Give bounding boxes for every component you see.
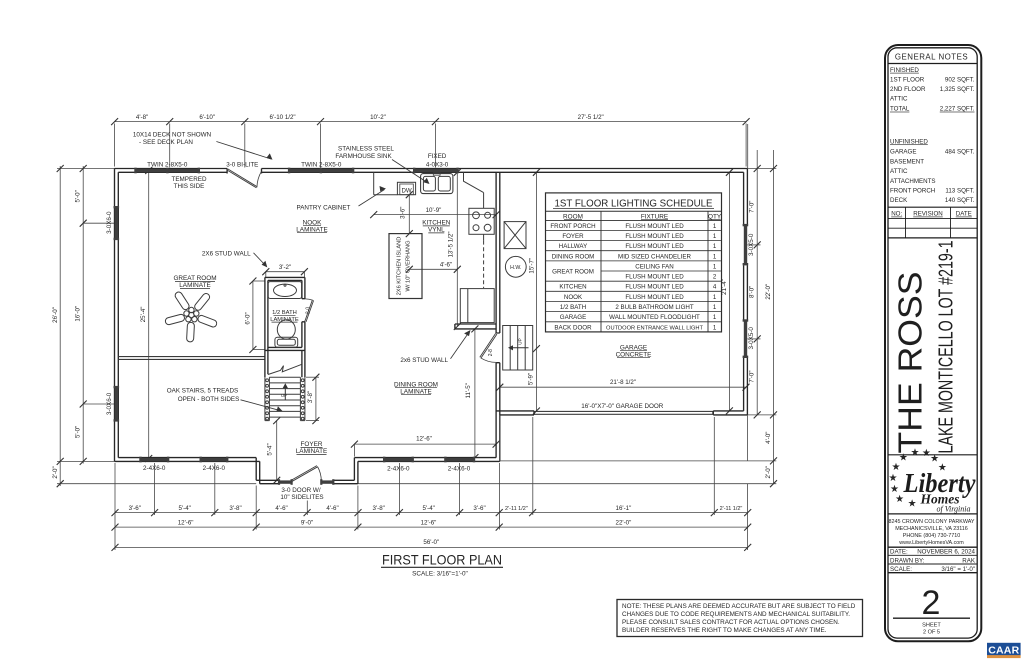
window 2-4x6-0 bottom 3 — [385, 458, 412, 461]
svg-text:1ST FLOOR: 1ST FLOOR — [890, 76, 925, 83]
svg-text:FIRST FLOOR PLAN: FIRST FLOOR PLAN — [382, 553, 502, 568]
interior wall great room / hall — [118, 357, 265, 360]
liberty homes logo — [889, 448, 977, 514]
svg-text:HALLWAY: HALLWAY — [559, 243, 587, 250]
svg-text:TEMPERED: TEMPERED — [172, 176, 207, 183]
svg-text:6'-10": 6'-10" — [199, 114, 215, 121]
svg-text:ATTACHMENTS: ATTACHMENTS — [890, 178, 936, 185]
counter edge right of stove — [483, 193, 485, 241]
svg-text:2 BULB BATHROOM LIGHT: 2 BULB BATHROOM LIGHT — [615, 304, 693, 311]
door jambs bi-lite — [227, 169, 261, 174]
svg-text:2-4X6-0: 2-4X6-0 — [387, 465, 410, 472]
half bath walls — [265, 277, 305, 377]
window 3-0x6-0 left wall lower — [115, 388, 118, 421]
svg-text:22'-0": 22'-0" — [765, 284, 772, 300]
refrigerator — [460, 289, 494, 323]
svg-text:4'-8": 4'-8" — [136, 114, 148, 121]
svg-text:LAMINATE: LAMINATE — [296, 448, 328, 455]
wire garage west wall — [496, 172, 500, 461]
svg-text:3'-8": 3'-8" — [229, 505, 241, 512]
svg-text:DECK: DECK — [890, 197, 908, 204]
svg-text:2: 2 — [713, 274, 717, 281]
svg-text:GENERAL NOTES: GENERAL NOTES — [895, 53, 968, 62]
svg-text:BASEMENT: BASEMENT — [890, 159, 924, 166]
svg-text:1: 1 — [713, 324, 717, 331]
svg-text:2X6 KITCHEN ISLAND: 2X6 KITCHEN ISLAND — [396, 237, 402, 296]
garage entry stairs — [503, 326, 533, 371]
svg-text:SCALE: 3/16"=1'-0": SCALE: 3/16"=1'-0" — [412, 571, 468, 578]
wire garage front wall — [496, 411, 747, 415]
svg-text:27'-5 1/2": 27'-5 1/2" — [578, 114, 604, 121]
porch front extension line — [57, 483, 256, 485]
kitchen farmhouse sink — [421, 173, 453, 194]
svg-text:1: 1 — [713, 304, 717, 311]
svg-text:1: 1 — [713, 243, 717, 250]
bottom dimension row 3 overall 56'-0" — [115, 546, 748, 548]
svg-text:3/16" = 1'-0": 3/16" = 1'-0" — [941, 566, 975, 573]
svg-text:UNFINISHED: UNFINISHED — [890, 138, 928, 145]
svg-text:TOTAL: TOTAL — [890, 106, 910, 113]
svg-text:1: 1 — [713, 233, 717, 240]
svg-text:STAINLESS STEEL: STAINLESS STEEL — [338, 145, 394, 152]
svg-text:1/2 BATH: 1/2 BATH — [560, 304, 586, 311]
garage apron — [500, 415, 748, 461]
svg-text:DINING ROOM: DINING ROOM — [394, 381, 438, 388]
top extension lines — [114, 124, 116, 167]
sidelites front door — [280, 480, 292, 483]
wire top wall inner — [118, 171, 743, 173]
svg-text:MECHANICSVILLE, VA 23116: MECHANICSVILLE, VA 23116 — [895, 526, 968, 532]
svg-text:1: 1 — [713, 314, 717, 321]
svg-text:10'-2": 10'-2" — [370, 114, 386, 121]
svg-text:3'-6": 3'-6" — [473, 505, 485, 512]
svg-text:4'-6": 4'-6" — [326, 505, 338, 512]
svg-text:GREAT ROOM: GREAT ROOM — [552, 269, 594, 276]
half bath toilet — [275, 320, 298, 347]
svg-text:1ST FLOOR LIGHTING SCHEDULE: 1ST FLOOR LIGHTING SCHEDULE — [555, 199, 713, 210]
wire foyer left step — [256, 458, 260, 484]
svg-text:2: 2 — [922, 584, 941, 622]
svg-text:KITCHEN: KITCHEN — [559, 284, 586, 291]
svg-text:CHANGES DUE TO CODE REQUIREMEN: CHANGES DUE TO CODE REQUIREMENTS AND MEC… — [622, 611, 850, 618]
svg-text:NOOK: NOOK — [564, 294, 583, 301]
svg-text:FOYER: FOYER — [300, 441, 322, 448]
window 2-4x6-0 bottom 4 — [446, 458, 473, 461]
svg-text:10X14 DECK NOT SHOWN: 10X14 DECK NOT SHOWN — [133, 132, 212, 139]
kitchen wall B — [455, 324, 496, 329]
svg-text:4'-0": 4'-0" — [765, 432, 772, 444]
wire leader deck note — [216, 142, 271, 160]
svg-text:3'-8": 3'-8" — [373, 505, 385, 512]
svg-text:FRONT PORCH: FRONT PORCH — [890, 187, 935, 194]
corner cabinet — [464, 172, 484, 192]
svg-text:FLUSH MOUNT LED: FLUSH MOUNT LED — [625, 274, 684, 281]
svg-text:4: 4 — [713, 284, 717, 291]
svg-text:1: 1 — [713, 294, 717, 301]
svg-text:16'-1": 16'-1" — [616, 505, 632, 512]
svg-text:2'-11 1/2": 2'-11 1/2" — [720, 506, 743, 512]
window fixed 4-0x3-0 — [415, 169, 458, 172]
wire left wall — [115, 169, 119, 462]
svg-text:5'-4": 5'-4" — [423, 505, 435, 512]
wire leader sink note — [392, 160, 428, 184]
svg-text:5'-9": 5'-9" — [527, 373, 534, 385]
interior dimension lines — [266, 271, 305, 273]
half bath door leaf and swing — [305, 299, 314, 322]
wire bottom-left wall — [115, 458, 260, 462]
svg-text:3'-6": 3'-6" — [129, 505, 141, 512]
svg-text:H.W.: H.W. — [510, 265, 521, 271]
svg-text:CEILING FAN: CEILING FAN — [635, 264, 674, 271]
svg-text:2x6 STUD WALL: 2x6 STUD WALL — [400, 357, 448, 364]
garage stairs UP arrow — [508, 338, 529, 350]
svg-text:3'-2": 3'-2" — [279, 264, 291, 271]
wire foyer front wall — [256, 480, 358, 483]
svg-text:10" SIDELITES: 10" SIDELITES — [280, 494, 323, 501]
svg-text:VYNL: VYNL — [428, 227, 445, 234]
svg-text:2,227 SQFT.: 2,227 SQFT. — [940, 106, 975, 113]
svg-text:★: ★ — [908, 498, 917, 509]
great room ceiling fan — [165, 291, 218, 342]
svg-text:FARMHOUSE SINK: FARMHOUSE SINK — [335, 153, 392, 160]
annotation labels — [106, 132, 755, 502]
revision table — [888, 207, 977, 238]
svg-text:★: ★ — [911, 448, 920, 459]
svg-text:W/ 10" OVERHANG: W/ 10" OVERHANG — [406, 240, 412, 291]
svg-text:13'-5 1/2": 13'-5 1/2" — [447, 231, 454, 257]
window 3-0x5-0 right wall lower — [744, 321, 747, 357]
svg-text:SCALE:: SCALE: — [890, 566, 912, 573]
svg-text:3'-8": 3'-8" — [307, 391, 314, 403]
svg-text:2 OF 5: 2 OF 5 — [923, 629, 940, 635]
svg-text:5'-4": 5'-4" — [266, 443, 273, 455]
window 3-0x5-0 right wall upper — [744, 226, 747, 265]
stairs UP arrow — [281, 383, 288, 399]
bottom dimension row 1 — [115, 512, 748, 514]
bottom dimension row 2 — [115, 526, 748, 528]
svg-text:484 SQFT.: 484 SQFT. — [945, 149, 975, 156]
svg-text:26'-0": 26'-0" — [52, 307, 59, 323]
svg-text:FLUSH MOUNT LED: FLUSH MOUNT LED — [625, 233, 684, 240]
main stairs — [265, 377, 305, 420]
svg-text:FRONT PORCH: FRONT PORCH — [550, 223, 595, 230]
svg-text:5'-0": 5'-0" — [75, 426, 82, 438]
svg-text:DATE:: DATE: — [890, 549, 908, 556]
svg-text:4'-6": 4'-6" — [440, 262, 452, 269]
stove / range — [469, 208, 494, 234]
window twin 2-8x5-0 (left) — [136, 169, 199, 172]
svg-text:LAKE MONTICELLO LOT #219-1: LAKE MONTICELLO LOT #219-1 — [936, 241, 958, 454]
sheet number — [893, 584, 970, 635]
svg-text:10'-9": 10'-9" — [426, 207, 442, 214]
svg-text:3-0 BI-LITE: 3-0 BI-LITE — [226, 161, 258, 168]
svg-text:FLUSH MOUNT LED: FLUSH MOUNT LED — [625, 294, 684, 301]
svg-text:8'-0": 8'-0" — [749, 286, 756, 298]
svg-text:GARAGE: GARAGE — [890, 149, 916, 156]
svg-text:OPEN - BOTH SIDES: OPEN - BOTH SIDES — [178, 396, 240, 403]
svg-text:2'-0": 2'-0" — [765, 466, 772, 478]
svg-text:3-0 DOOR W/: 3-0 DOOR W/ — [281, 487, 320, 494]
svg-text:LAMINATE: LAMINATE — [400, 388, 432, 395]
left dimension lines — [59, 166, 61, 486]
svg-text:113 SQFT.: 113 SQFT. — [945, 187, 974, 194]
svg-text:2-8: 2-8 — [488, 349, 494, 356]
svg-text:2X6 STUD WALL: 2X6 STUD WALL — [202, 250, 251, 257]
svg-text:FOYER: FOYER — [562, 233, 584, 240]
svg-text:FINISHED: FINISHED — [890, 67, 919, 74]
svg-text:6'-10 1/2": 6'-10 1/2" — [270, 114, 296, 121]
svg-text:16'-0": 16'-0" — [75, 306, 82, 322]
svg-text:NOTE: THESE PLANS ARE DEEMED A: NOTE: THESE PLANS ARE DEEMED ACCURATE BU… — [622, 603, 856, 610]
top dimension line — [115, 121, 747, 123]
svg-text:25'-4": 25'-4" — [140, 307, 147, 323]
svg-text:12'-6": 12'-6" — [178, 520, 194, 527]
date drawn scale rows — [888, 547, 977, 573]
svg-text:DW: DW — [402, 187, 412, 194]
svg-text:UP: UP — [518, 338, 523, 344]
svg-text:SHEET: SHEET — [922, 623, 941, 629]
svg-text:3'-6": 3'-6" — [400, 207, 407, 219]
svg-text:GARAGE: GARAGE — [620, 344, 647, 351]
stairs landing break line — [268, 364, 302, 374]
svg-text:6'-0": 6'-0" — [245, 312, 252, 324]
svg-text:LAMINATE: LAMINATE — [179, 282, 211, 289]
svg-text:OAK STAIRS, 5 TREADS: OAK STAIRS, 5 TREADS — [167, 388, 239, 395]
bottom extension lines — [114, 463, 116, 550]
svg-text:FLUSH MOUNT LED: FLUSH MOUNT LED — [625, 284, 684, 291]
svg-text:NO:: NO: — [891, 211, 902, 218]
address — [888, 519, 974, 546]
svg-text:1: 1 — [713, 253, 717, 260]
svg-text:BACK DOOR: BACK DOOR — [554, 324, 592, 331]
svg-text:★: ★ — [892, 462, 901, 473]
svg-text:of Virginia: of Virginia — [937, 505, 971, 514]
svg-text:WALL MOUNTED FLOODLIGHT: WALL MOUNTED FLOODLIGHT — [609, 314, 700, 321]
svg-text:2-0: 2-0 — [305, 307, 311, 314]
svg-text:4-0X3-0: 4-0X3-0 — [426, 161, 449, 168]
svg-text:5'-0": 5'-0" — [75, 190, 82, 202]
svg-text:DINING ROOM: DINING ROOM — [552, 253, 595, 260]
svg-text:THE ROSS: THE ROSS — [892, 272, 929, 454]
right dimension lines — [756, 150, 758, 415]
svg-text:PANTRY CABINET: PANTRY CABINET — [297, 204, 351, 211]
tick marks — [111, 118, 118, 125]
svg-text:REVISION: REVISION — [913, 211, 943, 218]
svg-text:5'-4": 5'-4" — [179, 505, 191, 512]
svg-text:2'-11 1/2": 2'-11 1/2" — [505, 506, 528, 512]
pantry cabinet — [374, 172, 398, 194]
svg-text:8245 CROWN COLONY PARKWAY: 8245 CROWN COLONY PARKWAY — [888, 519, 974, 525]
svg-text:ATTIC: ATTIC — [890, 168, 908, 175]
svg-text:1: 1 — [713, 264, 717, 271]
svg-text:LAMINATE: LAMINATE — [296, 226, 328, 233]
plan title — [381, 553, 503, 578]
svg-text:16'-0"X7'-0" GARAGE DOOR: 16'-0"X7'-0" GARAGE DOOR — [581, 403, 664, 410]
water heater — [505, 256, 526, 277]
svg-text:FIXED: FIXED — [428, 153, 447, 160]
svg-text:TWIN 2-8X5-0: TWIN 2-8X5-0 — [301, 161, 342, 168]
lighting schedule table — [546, 193, 722, 332]
wire top wall outer — [115, 168, 748, 170]
svg-text:3-0X6-0: 3-0X6-0 — [106, 392, 113, 415]
dimension lines — [57, 118, 777, 551]
window twin 2-8x5-0 (nook) — [290, 169, 353, 172]
svg-text:GARAGE: GARAGE — [560, 314, 586, 321]
svg-text:9'-0": 9'-0" — [301, 520, 313, 527]
title block — [885, 45, 981, 641]
note box — [617, 600, 863, 637]
window 3-0x6-0 left wall upper — [115, 208, 118, 239]
CAAR logo — [987, 643, 1021, 658]
garage door panel — [535, 411, 713, 414]
svg-text:★: ★ — [889, 473, 898, 484]
svg-text:CAAR: CAAR — [988, 645, 1019, 657]
wire leader stud wall 1 — [254, 253, 267, 266]
svg-text:OUTDOOR ENTRANCE WALL LIGHT: OUTDOOR ENTRANCE WALL LIGHT — [606, 325, 703, 331]
svg-text:22'-0": 22'-0" — [616, 520, 632, 527]
kitchen island — [389, 234, 422, 299]
left extension stubs — [57, 168, 115, 170]
svg-text:140 SQFT.: 140 SQFT. — [945, 197, 975, 204]
svg-text:PHONE (804) 730-7710: PHONE (804) 730-7710 — [903, 533, 961, 539]
svg-text:15'-7": 15'-7" — [528, 258, 535, 274]
front entry door leaf and swing — [292, 466, 322, 482]
svg-text:7'-0": 7'-0" — [749, 201, 756, 213]
svg-text:1,325 SQFT.: 1,325 SQFT. — [940, 86, 975, 93]
svg-text:- SEE DECK PLAN: - SEE DECK PLAN — [139, 139, 193, 146]
room labels — [173, 219, 651, 455]
svg-text:www.LibertyHomesVA.com: www.LibertyHomesVA.com — [898, 540, 964, 546]
svg-text:ATTIC: ATTIC — [890, 96, 908, 103]
svg-text:2ND FLOOR: 2ND FLOOR — [890, 86, 926, 93]
svg-text:2-4X6-0: 2-4X6-0 — [143, 465, 166, 472]
svg-text:3-0X5-0: 3-0X5-0 — [748, 233, 755, 256]
door bi-lite leaf and swing — [227, 169, 262, 188]
dimension texts — [52, 114, 772, 546]
svg-text:FLUSH MOUNT LED: FLUSH MOUNT LED — [625, 223, 684, 230]
wire leader stud wall 2 — [451, 332, 470, 359]
svg-text:2-4X6-0: 2-4X6-0 — [203, 465, 226, 472]
svg-text:KITCHEN: KITCHEN — [422, 220, 450, 227]
svg-text:CONCRETE: CONCRETE — [616, 351, 652, 358]
svg-text:PLEASE CONSULT SALES CONTRACT: PLEASE CONSULT SALES CONTRACT FOR ACTUAL… — [622, 619, 840, 626]
svg-text:902 SQFT.: 902 SQFT. — [945, 76, 975, 83]
svg-text:56'-0": 56'-0" — [423, 539, 439, 546]
svg-text:RAK: RAK — [962, 557, 976, 564]
garage entry door leaf and swing — [480, 333, 497, 362]
svg-text:3-0X5-0: 3-0X5-0 — [748, 327, 755, 350]
leader lines — [216, 142, 469, 411]
svg-text:NOVEMBER 6, 2024: NOVEMBER 6, 2024 — [917, 549, 975, 556]
svg-text:3-0X6-0: 3-0X6-0 — [106, 211, 113, 234]
svg-text:THIS SIDE: THIS SIDE — [174, 183, 205, 190]
svg-text:12'-6": 12'-6" — [421, 520, 437, 527]
svg-text:4'-6": 4'-6" — [275, 505, 287, 512]
svg-text:NOOK: NOOK — [303, 219, 323, 226]
svg-text:BUILDER RESERVES THE RIGHT TO: BUILDER RESERVES THE RIGHT TO MAKE CHANG… — [622, 627, 827, 634]
svg-text:1: 1 — [713, 223, 717, 230]
dishwasher DW — [397, 182, 415, 194]
attic access — [504, 222, 526, 249]
svg-text:21'-8 1/2": 21'-8 1/2" — [610, 379, 636, 386]
exterior walls — [115, 169, 748, 484]
svg-text:DRAWN BY:: DRAWN BY: — [890, 557, 925, 564]
svg-text:11'-5": 11'-5" — [465, 383, 472, 398]
window 2-4x6-0 bottom 1 — [141, 458, 167, 461]
svg-text:12'-6": 12'-6" — [416, 436, 432, 443]
svg-text:UP: UP — [281, 393, 287, 398]
svg-text:MID SIZED CHANDELIER: MID SIZED CHANDELIER — [618, 253, 691, 260]
window 2-4x6-0 bottom 2 — [201, 458, 226, 461]
svg-text:2-4X6-0: 2-4X6-0 — [448, 465, 471, 472]
wire leader pantry — [359, 190, 385, 207]
windows — [114, 168, 749, 485]
right extension stubs — [747, 168, 776, 170]
svg-text:DATE: DATE — [956, 211, 972, 218]
wire right wall — [744, 169, 748, 415]
svg-text:FLUSH MOUNT LED: FLUSH MOUNT LED — [625, 243, 684, 250]
wire bottom-right wall — [354, 458, 499, 462]
svg-text:2'-0": 2'-0" — [52, 466, 59, 478]
wire leader oak stairs — [241, 400, 282, 411]
half bath sink counter — [268, 282, 301, 299]
svg-text:7'-0": 7'-0" — [749, 370, 756, 382]
svg-text:TWIN 2-8X5-0: TWIN 2-8X5-0 — [147, 161, 188, 168]
svg-text:GREAT ROOM: GREAT ROOM — [173, 275, 216, 282]
wire foyer right step — [354, 458, 358, 484]
